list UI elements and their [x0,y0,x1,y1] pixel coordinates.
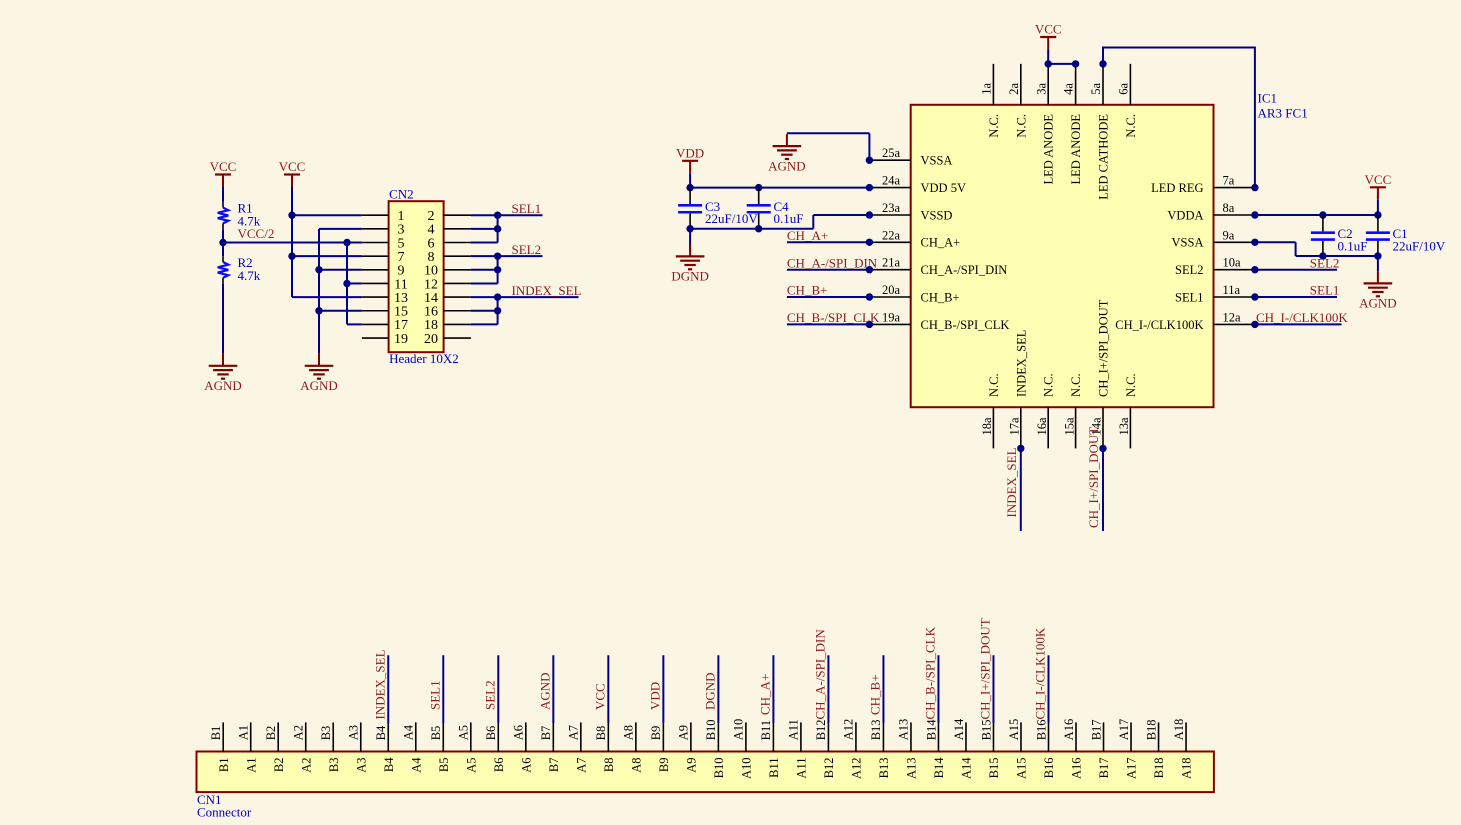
net SEL2 wire (right) [1255,269,1337,271]
IC1 pin 8a stub [1214,214,1255,216]
svg-text:B3: B3 [327,758,341,773]
junction VCC - CN2 pin 1 [288,212,295,219]
svg-text:19a: 19a [882,310,901,324]
CN1 pin B3 stub [332,722,334,751]
svg-text:A8: A8 [629,758,643,773]
wire node VCC/2 to CN2 pin 5 [223,242,362,244]
junction pin 22a [866,239,873,246]
CN2 pin 5 stub [362,242,389,244]
CN1 pin A17 stub [1130,722,1132,751]
svg-text:N.C.: N.C. [1014,114,1028,138]
IC1 pin 16a stub [1047,407,1049,448]
wire AGND vertical to CN2 pin 9 [319,269,362,271]
svg-text:Header 10X2: Header 10X2 [389,351,459,366]
svg-text:B17: B17 [1097,758,1111,779]
CN2 pin 14 stub [444,296,471,298]
svg-text:A2: A2 [292,725,306,740]
svg-text:AR3 FC1: AR3 FC1 [1258,105,1308,120]
svg-text:A9: A9 [677,725,691,740]
junction AGND - CN2 pin 9 [315,266,322,273]
CN1 pin B15 stub [992,722,994,751]
junction VCC/2 - CN2 pin 11 [343,280,350,287]
CN1 pin A5 stub [470,722,472,751]
CN1 pin A8 stub [635,722,637,751]
svg-text:VCC: VCC [210,159,237,174]
svg-text:CH_B-/SPI_CLK: CH_B-/SPI_CLK [921,318,1010,332]
svg-text:A4: A4 [402,724,416,740]
svg-text:VDD 5V: VDD 5V [921,181,966,195]
svg-text:SEL1: SEL1 [512,201,542,216]
svg-text:AGND: AGND [768,158,806,173]
IC1 pin 23a stub [869,214,910,216]
IC1 pin 4a stub [1075,64,1077,105]
svg-text:B11: B11 [767,758,781,778]
wire DGND rail [690,228,813,230]
wire R1 to node VCC/2 [222,229,224,256]
ground AGND (VSSA) [768,134,806,173]
svg-text:B2: B2 [264,726,278,741]
svg-text:A15: A15 [1007,719,1021,741]
net CH_I-/CLK100K wire (right) [1255,323,1342,325]
CN1 pin A15 stub [1020,722,1022,751]
CN1 pin B18 stub [1158,722,1160,751]
wire pin 3a to pin 4a [1048,63,1075,65]
svg-text:B5: B5 [429,726,443,741]
svg-text:A4: A4 [409,757,423,773]
CN1 pin A14 stub [965,722,967,751]
wire DGND rail to pin 23a [812,215,814,229]
CN2 pin 19 stub [362,337,389,339]
CN2 pin 7 stub [362,255,389,257]
IC1 pin 1a stub [992,64,994,105]
capacitor C3 22uF/10V [678,188,758,229]
junction VDDA rail at C2 [1319,211,1326,218]
svg-text:B10: B10 [712,758,726,779]
wire pin 5a to pin 7a (LED REG) [1103,48,1255,188]
junction pin 11a [1251,293,1258,300]
CN1 pin B9 stub [662,722,664,751]
svg-text:A1: A1 [244,758,258,773]
svg-text:3a: 3a [1034,83,1048,95]
CN1 pin A7 stub [580,722,582,751]
svg-text:VSSA: VSSA [1172,236,1204,250]
ground AGND (divider) [204,354,242,393]
CN1 pin B11 stub [772,722,774,751]
svg-text:N.C.: N.C. [1124,114,1138,138]
capacitor C1 22uF/10V [1366,215,1446,256]
svg-text:SEL1: SEL1 [1175,290,1203,304]
net INDEX_SEL wire [471,296,579,298]
CN1 pin B13 stub [882,722,884,751]
svg-text:DGND: DGND [671,269,709,284]
svg-text:1a: 1a [980,83,994,95]
CN2 pin 15 stub [362,310,389,312]
junction SEL1 - pin 4 [494,225,501,232]
wire CN2 pin 3 to AGND vertical [319,228,362,230]
net CH_I+/SPI_DOUT wire (CN1 pin B15) [992,655,994,723]
IC1 pin 22a stub [869,241,910,243]
svg-text:CH_I-/CLK100K: CH_I-/CLK100K [1256,310,1348,325]
net CH_I-/CLK100K wire (CN1 pin B16) [1048,655,1050,723]
IC1 pin 15a stub [1075,407,1077,448]
wire R2 to AGND [222,284,224,354]
net CH_A-/SPI_DIN wire [787,269,870,271]
junction pin 9a [1251,239,1258,246]
IC1 pin 20a stub [869,296,910,298]
svg-text:A17: A17 [1125,758,1139,780]
CN1 pin A16 stub [1075,722,1077,751]
svg-text:A1: A1 [237,725,251,740]
svg-text:B3: B3 [319,726,333,741]
svg-text:LED ANODE: LED ANODE [1042,114,1056,185]
IC1 pin 12a stub [1214,323,1255,325]
svg-text:CH_I-/CLK100K: CH_I-/CLK100K [1115,318,1203,332]
svg-text:VDD: VDD [647,682,662,710]
svg-text:A15: A15 [1015,758,1029,780]
wire VCC to VDDA rail [1377,200,1379,215]
net CH_A+ wire (CN1 pin B11) [772,655,774,723]
capacitor C4 0.1uF [747,188,804,229]
svg-text:A7: A7 [574,758,588,773]
junction pin 21a [866,266,873,273]
svg-text:CH_A-/SPI_DIN: CH_A-/SPI_DIN [921,263,1008,277]
svg-text:25a: 25a [882,146,901,160]
CN2 pin 3 stub [362,228,389,230]
wire VDD to VDD5V rail [689,173,691,187]
wire AGND vertical to CN2 pin 15 [319,310,362,312]
CN1 pin B17 stub [1103,722,1105,751]
svg-text:B14: B14 [932,757,946,779]
svg-text:B2: B2 [272,758,286,773]
connector CN2 body [389,201,444,352]
wire VSSA rail [1296,255,1378,257]
svg-text:17a: 17a [1008,417,1022,436]
svg-text:B8: B8 [594,726,608,741]
CN2 pin 12 stub [444,282,471,284]
svg-text:B15: B15 [979,719,993,740]
net DGND wire (CN1 pin B10) [717,655,719,723]
svg-text:A8: A8 [622,725,636,740]
net CH_I+/SPI_DOUT wire (pin 14a) [1102,448,1104,531]
svg-text:AGND: AGND [1359,296,1397,311]
svg-text:B9: B9 [649,726,663,741]
junction pin 12a [1251,321,1258,328]
junction node VCC/2 [219,239,226,246]
IC1 pin 2a stub [1020,64,1022,105]
svg-text:B14: B14 [924,719,938,741]
junction pin 25a [866,157,873,164]
svg-text:N.C.: N.C. [1069,373,1083,397]
svg-text:VCC: VCC [1365,172,1392,187]
CN1 pin B4 stub [387,722,389,751]
svg-text:A13: A13 [897,719,911,741]
IC1 pin 10a stub [1214,269,1255,271]
svg-text:N.C.: N.C. [987,373,1001,397]
CN1 pin B14 stub [937,722,939,751]
IC1 pin 24a stub [869,187,910,189]
svg-text:A6: A6 [519,758,533,773]
svg-text:A5: A5 [457,725,471,740]
wire VCC to pin 3a [1047,50,1049,64]
svg-text:B9: B9 [657,758,671,773]
svg-text:LED CATHODE: LED CATHODE [1097,114,1111,200]
junction VDDA rail at C1 [1374,211,1381,218]
wire VCC/2 vertical to CN2 pin 17 [346,243,348,325]
svg-text:A10: A10 [739,758,753,780]
svg-text:VDDA: VDDA [1167,208,1203,222]
junction VDD rail at C4 [755,184,762,191]
ground AGND (CN2) [300,354,338,393]
IC1 pin 19a stub [869,323,910,325]
svg-text:A2: A2 [299,758,313,773]
svg-text:0.1uF: 0.1uF [774,211,804,226]
svg-text:CH_A+: CH_A+ [757,674,772,715]
svg-text:A17: A17 [1117,719,1131,741]
svg-text:A11: A11 [795,758,809,779]
resistor R2 4.7k [218,255,261,284]
svg-text:B13: B13 [869,719,883,740]
svg-text:INDEX_SEL: INDEX_SEL [1014,330,1028,397]
svg-text:N.C.: N.C. [1124,373,1138,397]
svg-text:B1: B1 [217,758,231,773]
svg-text:DGND: DGND [702,672,717,710]
junction SEL2 - pin 10 [494,266,501,273]
IC1 pin 18a stub [992,407,994,448]
IC1 pin 14a stub [1102,407,1104,448]
svg-text:20a: 20a [882,283,901,297]
CN2 pin 4 stub [444,228,471,230]
svg-text:LED ANODE: LED ANODE [1069,114,1083,185]
svg-text:A18: A18 [1180,758,1194,780]
svg-text:B18: B18 [1152,758,1166,779]
CN2 pin 9 stub [362,269,389,271]
svg-text:B12: B12 [822,758,836,779]
svg-text:INDEX_SEL: INDEX_SEL [372,649,387,719]
svg-text:A10: A10 [732,719,746,741]
svg-text:AGND: AGND [537,672,552,710]
IC1 pin 5a stub [1102,64,1104,105]
CN2 pin 10 stub [444,269,471,271]
svg-text:B18: B18 [1144,719,1158,740]
svg-text:CH_I+/SPI_DOUT: CH_I+/SPI_DOUT [1097,299,1111,397]
CN1 pin B2 stub [277,722,279,751]
svg-text:SEL2: SEL2 [512,242,542,257]
svg-text:B15: B15 [987,758,1001,779]
junction pin 8a [1251,211,1258,218]
svg-text:CH_A-/SPI_DIN: CH_A-/SPI_DIN [787,255,878,270]
svg-text:7a: 7a [1223,174,1235,188]
wire pin 9a to VSSA rail [1255,241,1296,243]
CN1 pin B12 stub [827,722,829,751]
CN1 pin B1 stub [222,722,224,751]
svg-text:A3: A3 [347,725,361,740]
junction VSSA rail at C1 [1374,252,1381,259]
net SEL1 wire (CN1 pin B5) [442,655,444,723]
CN1 pin B16 stub [1048,722,1050,751]
CN2 pin 6 stub [444,242,471,244]
svg-text:B1: B1 [209,726,223,741]
net CH_B+ wire [787,296,870,298]
svg-text:INDEX_SEL: INDEX_SEL [512,283,582,298]
net VCC wire (CN1 pin B8) [607,655,609,723]
wire AGND to pin 25a [787,132,870,134]
junction VCC/2 - CN2 pin 5 [343,239,350,246]
junction pin 4a [1072,60,1079,67]
svg-text:VCC: VCC [1035,22,1062,37]
wire VCC to R1 [222,187,224,202]
IC1 pin 11a stub [1214,296,1255,298]
IC1 pin 13a stub [1129,407,1131,448]
svg-text:CH_A+: CH_A+ [921,236,961,250]
svg-text:A14: A14 [952,718,966,740]
CN1 pin A1 stub [250,722,252,751]
junction pin 7a [1251,184,1258,191]
svg-text:VCC/2: VCC/2 [238,226,275,241]
svg-text:A9: A9 [684,758,698,773]
svg-text:A11: A11 [787,719,801,740]
svg-text:CH_B+: CH_B+ [921,290,960,304]
svg-text:A12: A12 [850,758,864,780]
CN1 pin A18 stub [1185,722,1187,751]
CN1 pin B5 stub [442,722,444,751]
svg-text:VDD: VDD [676,145,704,160]
CN1 pin A10 stub [745,722,747,751]
svg-text:10a: 10a [1223,256,1242,270]
IC1 pin 9a stub [1214,241,1255,243]
wire VCC vertical to CN2 pin 13 [291,187,293,297]
CN2 pin 17 stub [362,323,389,325]
wire VCC/2 vertical to CN2 pin 11 [347,282,362,284]
CN1 pin B10 stub [717,722,719,751]
svg-text:VSSD: VSSD [921,208,953,222]
CN2 pin 11 stub [362,282,389,284]
svg-text:B11: B11 [759,720,773,740]
junction pin 19a [866,321,873,328]
svg-text:2a: 2a [1007,83,1021,95]
svg-text:CH_A-/SPI_DIN: CH_A-/SPI_DIN [812,629,827,720]
svg-text:0.1uF: 0.1uF [1338,238,1368,253]
wire pin 16 to INDEX_SEL vertical [471,310,498,312]
svg-text:INDEX_SEL: INDEX_SEL [1004,447,1019,517]
wire VCC to CN2 pin 1 [292,214,362,216]
net SEL1 wire [471,214,543,216]
CN1 pin A2 stub [305,722,307,751]
junction pin 23a [866,211,873,218]
svg-text:6a: 6a [1117,83,1131,95]
svg-text:B16: B16 [1034,719,1048,740]
svg-text:SEL1: SEL1 [427,680,442,710]
wire VDD rail to pin 24a [690,187,869,189]
junction AGND - CN2 pin 15 [315,307,322,314]
svg-text:IC1: IC1 [1258,91,1278,106]
svg-text:B10: B10 [704,719,718,740]
svg-text:22uF/10V: 22uF/10V [1393,238,1446,253]
svg-text:VSSA: VSSA [921,154,953,168]
ground AGND (right) [1359,271,1397,310]
junction VDD rail at C3 [686,184,693,191]
junction pin 17a [1017,445,1024,452]
net CH_B-/SPI_CLK wire (CN1 pin B14) [937,655,939,723]
svg-text:CH_I+/SPI_DOUT: CH_I+/SPI_DOUT [977,618,992,719]
CN2 pin 8 stub [444,255,471,257]
svg-text:11a: 11a [1223,283,1241,297]
IC1 pin 17a stub [1020,407,1022,448]
svg-text:CH_B-/SPI_CLK: CH_B-/SPI_CLK [787,310,880,325]
svg-text:A16: A16 [1070,758,1084,780]
svg-text:12a: 12a [1223,310,1242,324]
net SEL1 wire (right) [1255,296,1337,298]
svg-text:B7: B7 [539,726,553,741]
CN1 pin A4 stub [415,722,417,751]
CN1 pin A6 stub [525,722,527,751]
wire C1 to AGND [1377,256,1379,271]
svg-text:A13: A13 [905,758,919,780]
svg-text:18a: 18a [980,417,994,436]
wire pin 4 to SEL1 vertical [471,228,498,230]
svg-text:CH_A+: CH_A+ [787,228,828,243]
resistor R1 4.7k [218,201,261,230]
svg-text:N.C.: N.C. [987,114,1001,138]
net INDEX_SEL wire (pin 17a) [1020,448,1022,531]
svg-text:CN2: CN2 [389,186,414,201]
junction pin 20a [866,293,873,300]
wire C3 to DGND [689,229,691,251]
junction pin 5a [1099,60,1106,67]
svg-text:24a: 24a [882,174,901,188]
net CH_B+ wire (CN1 pin B13) [882,655,884,723]
svg-text:A3: A3 [354,758,368,773]
svg-text:B7: B7 [547,758,561,773]
svg-text:B4: B4 [382,757,396,772]
CN1 pin B7 stub [552,722,554,751]
svg-text:A7: A7 [567,725,581,740]
svg-text:A12: A12 [842,719,856,741]
net CH_A+ wire [787,241,870,243]
svg-text:B4: B4 [374,725,388,740]
svg-text:4a: 4a [1062,83,1076,95]
CN1 pin A3 stub [360,722,362,751]
junction INDEX_SEL - pin 14 [494,293,501,300]
op-amp IC1 body [911,105,1214,407]
svg-text:B6: B6 [492,758,506,773]
svg-text:5a: 5a [1089,83,1103,95]
junction DGND rail at C3 [686,225,693,232]
net AGND wire (CN1 pin B7) [552,655,554,723]
junction INDEX_SEL - pin 16 [494,307,501,314]
svg-text:B17: B17 [1089,719,1103,740]
capacitor C2 0.1uF [1311,215,1368,256]
CN2 pin 20 stub [444,337,471,339]
svg-text:CH_B+: CH_B+ [787,283,828,298]
wire pin 18 to INDEX_SEL vertical [471,323,498,325]
junction VCC - CN2 pin 7 [288,252,295,259]
net VDD wire (CN1 pin B9) [662,655,664,723]
svg-text:SEL2: SEL2 [482,680,497,710]
junction SEL2 - pin 8 [494,252,501,259]
svg-text:LED REG: LED REG [1151,181,1203,195]
net SEL2 wire (CN1 pin B6) [497,655,499,723]
CN1 pin A11 stub [800,722,802,751]
IC1 pin 3a stub [1047,64,1049,105]
svg-text:A14: A14 [960,757,974,779]
svg-text:AGND: AGND [300,378,338,393]
svg-text:B13: B13 [877,758,891,779]
svg-text:23a: 23a [882,201,901,215]
svg-text:15a: 15a [1062,417,1076,436]
wire pin 10 to SEL2 vertical [471,269,498,271]
svg-text:B5: B5 [437,758,451,773]
svg-text:B12: B12 [814,719,828,740]
